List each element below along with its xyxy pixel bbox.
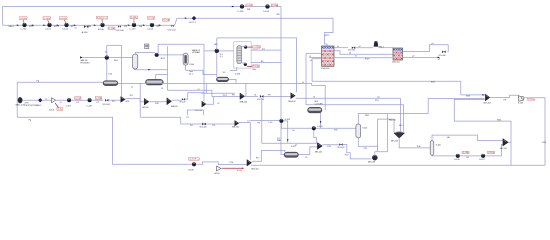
svg-text:MIX-101: MIX-101 (500, 148, 507, 150)
svg-text:E-108: E-108 (189, 169, 194, 171)
svg-text:HX-2: HX-2 (161, 58, 165, 60)
wire E-102 out to drum (109, 56, 133, 58)
svg-text:E-100: E-100 (98, 29, 105, 31)
wire bottom header (17, 117, 192, 164)
wire E-106 to E-107 (460, 155, 482, 157)
wire MIX-103 to V-106 (399, 138, 430, 148)
wire LNG-100 out top (334, 47, 348, 49)
wire drop 246 (245, 83, 247, 96)
wire row3 e (92, 99, 104, 101)
wire gas feed (82, 56, 105, 58)
condenser T-100 (244, 46, 247, 49)
svg-text:VLV-106: VLV-106 (257, 99, 264, 101)
wire E-102 top riser (106, 45, 108, 55)
wire V-104 bottom (320, 113, 322, 128)
wire valve outlet riser (171, 18, 281, 25)
svg-text:E-107: E-107 (480, 159, 485, 161)
label box Q-109 (462, 151, 469, 154)
svg-text:MIX-102: MIX-102 (252, 168, 259, 170)
wire vert 306 (305, 53, 307, 104)
wire MIX-104 out (490, 95, 519, 98)
source arrow gas de proceso (80, 56, 83, 58)
wire E-108 out (196, 162, 247, 165)
mixer MIX-102 (247, 160, 252, 167)
wire condenser energy stub (247, 46, 252, 48)
svg-text:C-104: C-104 (147, 29, 154, 31)
svg-text:C-105: C-105 (238, 11, 245, 13)
svg-text:Reb: Reb (252, 69, 255, 71)
wire MIX-101 drop (510, 142, 512, 165)
wire lower line (181, 123, 235, 125)
svg-text:C-103: C-103 (130, 29, 137, 31)
wire E-104 down header (280, 123, 282, 129)
wire row3 c (56, 99, 67, 101)
wire V-107 out (299, 147, 318, 155)
wire MIX-100 out (125, 98, 140, 100)
label box RCY-E (163, 19, 170, 22)
wire V-102 out (229, 79, 236, 83)
wire vert 250.3 (249, 122, 251, 159)
cooler C-108 (88, 98, 92, 102)
unit small box (145, 44, 149, 49)
wire arrow top line (232, 6, 234, 8)
separator V-102 (216, 77, 228, 82)
wire SEA out (245, 95, 259, 97)
wire E-103 to V-101 (159, 54, 184, 56)
wire Q-103 leader (133, 19, 135, 23)
wire funnel feed2 (306, 105, 404, 132)
svg-text:RCY-1: RCY-1 (190, 22, 197, 24)
reboiler T-100 (244, 63, 247, 66)
svg-text:C-102: C-102 (62, 29, 69, 31)
wire TEE-101 out (239, 121, 250, 123)
recycle RCY-1 (192, 16, 196, 20)
expander K-101 (374, 41, 378, 46)
valve VLV-103 (442, 50, 446, 53)
wire E-100 leader (101, 19, 104, 23)
wire vert 312 to header (311, 59, 313, 82)
compressor C-102 (65, 23, 69, 27)
wire A-103 energy (222, 167, 244, 169)
wire arrow down V-104 (320, 121, 322, 123)
wire bottom return (251, 164, 545, 166)
wire Q-102 leader (64, 20, 66, 23)
svg-text:E-109: E-109 (237, 170, 242, 172)
wire LNG-100 out low (334, 57, 392, 59)
wire riser 428 (428, 98, 484, 113)
wire LNG-101 out low (403, 56, 440, 58)
wire condenser cross header (217, 38, 297, 92)
svg-text:C-106: C-106 (263, 11, 270, 13)
wire E-104 to feed line (283, 121, 287, 143)
wire long line to funnel (296, 98, 401, 132)
mixer MIX-107 (144, 98, 149, 105)
wire VLV-106 down branch (261, 98, 263, 144)
wire V-101 bottom out (186, 65, 217, 74)
wire to K-101 (355, 47, 373, 49)
wire into E-101 top (216, 38, 218, 49)
svg-text:A-100: A-100 (82, 31, 89, 34)
svg-text:V-100: V-100 (189, 64, 194, 66)
wire MIX-105 out (323, 144, 340, 146)
wire E-103 top riser (157, 44, 159, 53)
wire header2 (158, 43, 204, 45)
wire arrow at 18 (17, 24, 19, 26)
wire VLV-108 out (185, 93, 204, 100)
svg-text:VLV-09: VLV-09 (179, 101, 185, 103)
cooler E-106 (456, 154, 460, 158)
svg-text:E-106: E-106 (455, 159, 460, 161)
wire condenser tie (241, 46, 245, 48)
wire K-100 out (524, 98, 546, 166)
svg-text:VLV-104: VLV-104 (103, 104, 110, 106)
wire reboiler tie (241, 62, 245, 64)
wire vert 167.5 (167, 46, 169, 90)
wire red arrow (242, 168, 244, 170)
mixer MIX-103 (394, 132, 405, 138)
heat exchanger LNG-101 (393, 48, 403, 60)
label box Q-C104 (148, 16, 155, 19)
wire row3 b (42, 99, 51, 101)
wire SEA line (212, 96, 240, 98)
wire column ovhd (251, 49, 281, 51)
svg-text:A-101: A-101 (49, 108, 54, 111)
wire recycle header down (281, 7, 284, 155)
wire upper right header (312, 80, 461, 82)
svg-text:MIX-104: MIX-104 (484, 103, 491, 105)
wire to LNG-100 top (281, 18, 333, 46)
svg-text:Pg: Pg (29, 119, 31, 121)
wire K-101 to LNG-101 (379, 47, 394, 49)
separator makeup drum (133, 54, 138, 69)
cooler E-103 (155, 53, 159, 57)
svg-text:PROCESO: PROCESO (80, 62, 90, 64)
wire label line 93 (201, 92, 235, 94)
wire top border (3, 7, 281, 26)
svg-text:VLV-100: VLV-100 (116, 30, 125, 32)
svg-text:A-103: A-103 (215, 172, 220, 175)
label box E-100 duty (97, 16, 108, 19)
label box C-101 duty (43, 17, 51, 20)
svg-text:COOLER: COOLER (315, 104, 324, 106)
cooler E-108 (192, 162, 196, 166)
label box reboiler Q (252, 65, 259, 68)
wire column bottoms elbow (230, 67, 237, 71)
heater A-101 (52, 98, 56, 103)
label box C-100 duty (20, 17, 28, 20)
wire LNG-100 in1 (306, 52, 322, 54)
wire main compressor train line (3, 24, 171, 26)
mixer MIX-101 (503, 139, 509, 147)
column V-101 internals (184, 55, 186, 63)
svg-text:Pg: Pg (37, 81, 39, 83)
svg-text:V-107: V-107 (291, 146, 296, 148)
wire vert 140.2 (139, 83, 141, 117)
valve VLV-100 (118, 26, 121, 28)
svg-text:V-106: V-106 (436, 145, 441, 147)
wire SEA-101 out (172, 99, 182, 101)
source WELL-100 (18, 97, 22, 103)
wire TEE-100 loop (187, 110, 203, 115)
label box QA (57, 108, 63, 111)
wire LNG-100 out mid (334, 51, 393, 54)
wire header1 (107, 44, 122, 46)
wire V-106 top out (432, 135, 503, 141)
mixer MIX-100 (121, 96, 126, 102)
wire row3 f (108, 99, 120, 101)
heat exchanger LNG-100 (322, 46, 335, 66)
wire to MIX-107 (140, 99, 144, 102)
label box Q-110 (488, 151, 495, 154)
wire E-102 to V-100 sep (106, 60, 108, 81)
wire loop to lower line (140, 117, 181, 124)
svg-text:C-101: C-101 (45, 29, 52, 31)
wire arrow at 44.5 (43, 24, 45, 26)
label box C-102 duty (60, 17, 68, 20)
wire QA energy (55, 103, 59, 108)
svg-text:LNG-100: LNG-100 (322, 68, 330, 70)
svg-text:V-105: V-105 (362, 128, 367, 130)
wire E-101 down to V-102 (216, 53, 218, 77)
svg-text:MIX-103: MIX-103 (391, 140, 398, 142)
wire MIX-102 up out (252, 150, 285, 161)
separator SEA-101 (167, 98, 172, 105)
svg-text:SBR: SBR (277, 140, 282, 142)
label box Q-106 (271, 4, 278, 7)
compressor C-101 (48, 23, 52, 27)
wire well riser (16, 82, 18, 117)
separator SEA-100 (240, 93, 245, 100)
svg-text:C-108: C-108 (87, 105, 92, 107)
wire long mid header (118, 82, 312, 84)
wire drum top out (135, 53, 155, 54)
wire vert 204 to TEE-100 (203, 44, 205, 101)
svg-text:E-100 Q: E-100 Q (97, 17, 105, 19)
svg-text:WELL: WELL (9, 26, 15, 28)
wire arrow at 95 (94, 24, 96, 26)
wire TEE-100 out (205, 97, 213, 105)
svg-text:WELL-100: WELL-100 (16, 105, 25, 107)
valve VLV-108 (182, 98, 185, 100)
svg-text:LNG-101: LNG-101 (392, 62, 400, 64)
label box Q-107 (75, 97, 82, 100)
label box C-103 duty (130, 16, 138, 19)
svg-text:VLV-107: VLV-107 (337, 147, 344, 149)
expander K-100 (519, 96, 524, 101)
wire arrow at 75 (74, 24, 76, 26)
svg-text:C-107: C-107 (66, 105, 71, 107)
svg-text:STREAM: STREAM (192, 51, 200, 54)
wire MIX-101 out (454, 99, 511, 142)
compressor C-103 (132, 23, 136, 27)
wire arrow y2 (438, 57, 440, 59)
wire vert 121.5 (121, 45, 123, 96)
wire E-105 header (281, 127, 356, 129)
svg-text:Q1: Q1 (60, 102, 62, 104)
svg-text:VLV-102: VLV-102 (348, 50, 355, 52)
label box Q-105 (246, 4, 253, 7)
wire V-103 top feed (156, 75, 168, 80)
wire Q-101 leader (48, 20, 50, 23)
cooler E-104 (280, 119, 284, 123)
wire arrow drum out (148, 69, 150, 71)
cooler C-107 (67, 98, 71, 102)
wire drum bottom out (134, 68, 167, 71)
wire column btms (251, 62, 281, 64)
separator V-106 (430, 141, 434, 156)
valve VLV-107 (339, 143, 342, 146)
compressor C-105 (240, 5, 244, 9)
wire mid header drop (312, 83, 326, 110)
wire MIX-107 out (149, 101, 167, 103)
separator V-101 (183, 53, 188, 65)
compressor C-104 (150, 23, 154, 27)
svg-text:PG/T: PG/T (365, 59, 370, 61)
wire to E-104 (250, 120, 279, 122)
separator V-100 (103, 81, 118, 86)
tee TEE-102 (291, 93, 296, 99)
svg-text:C-100: C-100 (20, 29, 27, 31)
wire row3 a (22, 99, 38, 101)
wire arrow at 33 (32, 24, 34, 26)
wire K-100 power underline (527, 99, 536, 101)
wire vert 377.6 (377, 119, 379, 146)
svg-text:E-105: E-105 (318, 126, 323, 128)
wire vert 387.5 (387, 114, 389, 152)
wire funnel feed3 (378, 119, 394, 132)
compressor C-106 (266, 5, 270, 9)
valve VLV-105 (202, 123, 206, 126)
column T-100 body (237, 46, 242, 64)
separator V-107 (284, 152, 298, 157)
svg-text:Q-1: Q-1 (220, 56, 223, 58)
cooler E-105 (312, 126, 316, 130)
compressor C-100 (23, 23, 27, 27)
svg-text:MIX-106: MIX-106 (368, 161, 375, 163)
label box Q-108 (95, 97, 102, 100)
tee TEE-100 (202, 101, 206, 107)
svg-text:De C: De C (189, 73, 194, 75)
valve VLV-101 (171, 25, 174, 27)
wire E-105 down stub (314, 130, 317, 143)
mixer MIX-106 (372, 155, 377, 160)
heater A-103 (217, 166, 222, 171)
wire Q-100 leader (23, 20, 24, 23)
svg-text:SEA-100: SEA-100 (240, 101, 248, 104)
svg-text:Q-111 E: Q-111 E (189, 159, 197, 161)
svg-text:WTC: WTC (325, 35, 330, 37)
wire E-107 riser (485, 145, 503, 156)
svg-text:Q2: Q2 (75, 27, 77, 29)
label box condenser Q (253, 46, 261, 49)
wire VLV-107 out (343, 145, 372, 159)
wire LNG-100 in2 (309, 57, 322, 59)
wire LNG-101 out top (403, 45, 449, 52)
wire drop 206 (205, 83, 207, 93)
svg-text:VLV-101: VLV-101 (168, 30, 177, 32)
svg-text:VLV-105: VLV-105 (200, 127, 207, 129)
wire V-105 bottom (358, 138, 387, 152)
svg-text:MIX-09: MIX-09 (143, 107, 149, 109)
wire MIX-106 top (375, 152, 377, 155)
compressor E-100 (101, 23, 105, 27)
cooler E-107 (481, 154, 485, 158)
separator V-105 (356, 124, 361, 138)
wire to TEE-102 (263, 95, 290, 97)
svg-text:T-100: T-100 (235, 74, 241, 76)
mixer MIX-104 (485, 94, 490, 101)
wire arrow into RCY-1 (185, 17, 187, 19)
wire row3 d (71, 99, 88, 101)
wire arrow at 58 (57, 24, 59, 26)
svg-text:BA-100: BA-100 (389, 119, 397, 122)
separator V-104 (308, 107, 323, 113)
wire arrow into MIX-104 (482, 94, 484, 96)
wire arrow at 160 (159, 24, 161, 26)
wire to E-101 (204, 50, 234, 52)
cooler E-101 (215, 49, 219, 53)
label box Q-104 (108, 27, 115, 30)
wire reboiler energy (247, 66, 252, 68)
wire MIX-104 in1 (461, 94, 486, 96)
wire LNG-100 in3 (312, 58, 321, 60)
svg-text:MIX-105: MIX-105 (315, 151, 322, 153)
separator A-100 icon (84, 25, 88, 28)
valve VLV-104 (105, 99, 108, 102)
svg-text:TEE-101: TEE-101 (232, 126, 239, 128)
wire V-106 bottom out (432, 154, 456, 157)
recycle RCY-2 (38, 98, 42, 102)
svg-text:VLV-100: VLV-100 (439, 55, 446, 57)
wire vert 460 (460, 81, 462, 95)
svg-text:TEE-102: TEE-102 (288, 101, 295, 103)
svg-text:SEA-09: SEA-09 (171, 105, 178, 108)
valve VLV-102 (352, 46, 355, 49)
svg-text:K-100: K-100 (518, 103, 523, 105)
wire gas header (17, 81, 103, 83)
valve VLV-106 (260, 95, 264, 98)
wire arrow at 144 (143, 24, 145, 26)
label box Q-111 (189, 158, 200, 161)
wire header 90.2 (168, 90, 212, 96)
wire arrow down 287 (287, 139, 289, 141)
cooler E-102 (105, 56, 109, 60)
wire arrow at 129 (128, 24, 130, 26)
column T-100 enclosure (234, 42, 251, 68)
wire V-105 top (358, 114, 428, 124)
tee TEE-101 (235, 120, 239, 126)
separator V-103 (145, 79, 163, 85)
wire to MIX-105 top (262, 143, 319, 144)
mixer MIX-105 (317, 143, 322, 150)
svg-text:PROPORTIONADO: PROPORTIONADO (25, 104, 42, 107)
